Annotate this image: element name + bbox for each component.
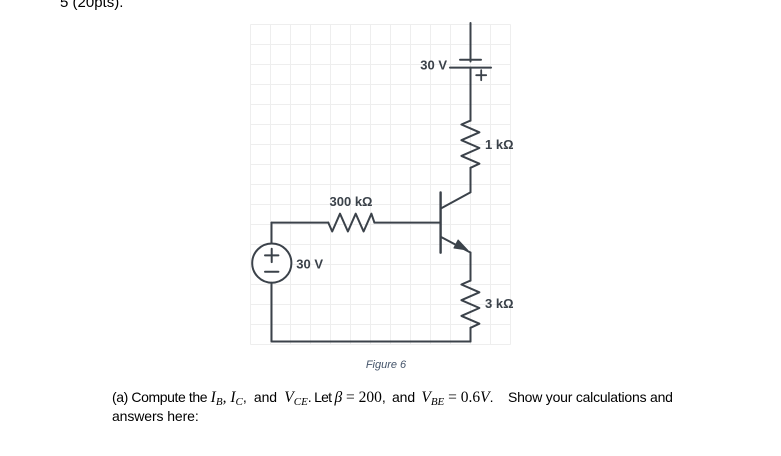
svg-text:300 kΩ: 300 kΩ	[330, 194, 373, 209]
wire R1 to collector	[470, 168, 472, 193]
resistor R2 3k	[461, 281, 479, 328]
voltage source V2 circle	[252, 244, 291, 283]
svg-text:1 kΩ: 1 kΩ	[485, 137, 514, 152]
paragraph	[112, 388, 732, 427]
transistor Q1 emitter arrow	[454, 240, 468, 250]
svg-text:30 V: 30 V	[420, 58, 447, 73]
voltage source minus	[265, 271, 278, 273]
wire R3 to source	[272, 222, 329, 224]
caption Figure 6	[300, 359, 472, 371]
wire R2 to bottom rail	[470, 328, 472, 342]
transistor Q1 base bar	[439, 192, 441, 252]
grid	[251, 25, 511, 345]
wire top to battery	[470, 23, 472, 62]
transistor Q1 collector	[441, 192, 471, 208]
battery plus polarity mark	[476, 70, 486, 80]
wire source top	[271, 223, 273, 244]
resistor R3 300k	[328, 214, 374, 232]
svg-text:30 V: 30 V	[296, 256, 323, 271]
wire emitter to R2	[470, 253, 472, 281]
battery V1 30V	[450, 60, 491, 68]
transistor Q1 emitter	[441, 237, 471, 253]
wire source bottom and bottom rail	[272, 283, 471, 342]
resistor R1 1k	[461, 121, 479, 168]
wire battery to R1	[470, 68, 472, 121]
svg-text:3 kΩ: 3 kΩ	[485, 296, 514, 311]
voltage source plus	[265, 249, 278, 262]
wire base	[374, 222, 439, 224]
